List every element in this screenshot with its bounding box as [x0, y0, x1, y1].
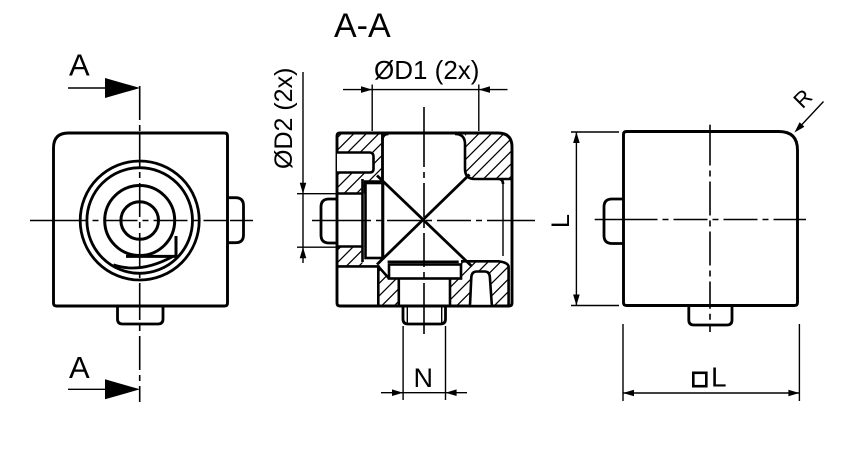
front outline square [54, 133, 228, 306]
arrow left [623, 390, 634, 397]
bottom-right block top edge [461, 261, 509, 306]
leader line [798, 102, 824, 130]
inner circle [121, 202, 159, 240]
horizontal centerline inside [54, 220, 228, 222]
svg-text:A: A [69, 350, 90, 385]
bore corner vertical tangent [175, 236, 178, 256]
svg-text:A: A [69, 48, 90, 83]
svg-text:ØD1 (2x): ØD1 (2x) [374, 55, 479, 85]
bottom tab [118, 306, 164, 324]
svg-text:A-A: A-A [334, 7, 391, 45]
chamfer circle [87, 168, 193, 274]
svg-text:L: L [547, 214, 575, 228]
bottom bore right wall [449, 279, 452, 307]
ext line left [622, 324, 624, 401]
slot notch bottom-right [470, 272, 492, 305]
dim line [575, 132, 577, 306]
horizontal centerline [30, 220, 253, 222]
arrow left [392, 389, 403, 396]
X diagonal 1 [377, 176, 472, 267]
arrow right [479, 86, 490, 93]
tab hole wall right [441, 306, 443, 323]
dim line [343, 89, 508, 91]
bore corner horizontal tangent [126, 255, 177, 258]
pocket chamfer [378, 266, 389, 278]
vertical clamp plate [366, 183, 384, 258]
dim line vertical [302, 72, 304, 263]
arrow bottom [573, 295, 580, 306]
ext line right [798, 324, 800, 401]
centerline overlay vertical [423, 133, 425, 306]
slot notch top-left [337, 153, 374, 173]
vertical centerline inside [139, 133, 141, 306]
ext line left [402, 326, 404, 400]
bottom-left pocket [337, 266, 378, 306]
centerline overlay horizontal [337, 220, 512, 222]
ext line top [571, 131, 619, 133]
dim line [623, 392, 799, 394]
crescent arc [114, 257, 173, 268]
hatch block top-right [465, 133, 512, 179]
top cavity fillet left [383, 134, 389, 140]
arrow line top [68, 87, 112, 89]
arrow top [573, 132, 580, 143]
hatch bottom-right block [450, 261, 509, 306]
leader arrow [795, 122, 805, 132]
bottom tab [403, 306, 446, 324]
hatch bottom-left inner [378, 266, 399, 306]
arrow bottom [300, 247, 307, 258]
X bottom close line [388, 260, 459, 263]
ext line right [478, 85, 480, 132]
arrow line bottom [68, 388, 112, 390]
bore circle [105, 186, 175, 256]
ext line right [445, 326, 447, 400]
arrow right [446, 389, 457, 396]
arrow head top [105, 78, 140, 98]
ext line left [371, 85, 373, 132]
hatch block top-left [337, 133, 383, 194]
centerline overlay horizontal [624, 219, 798, 221]
left tab [321, 199, 337, 243]
ext line bottom [571, 305, 619, 307]
top cavity fillet right [455, 134, 465, 144]
horizontal clamp plate [389, 265, 461, 279]
top-left block outline [365, 133, 383, 194]
section outline square [337, 133, 512, 306]
side outline square [624, 132, 798, 306]
right wall inner line [502, 184, 504, 256]
arrow top [300, 183, 307, 194]
top-right block outline [465, 144, 512, 184]
arrow right [788, 390, 799, 397]
left tab [604, 199, 624, 244]
vertical centerline [423, 107, 425, 334]
vertical centerline [709, 125, 711, 332]
dim line [381, 392, 467, 394]
left bore bottom line [337, 245, 363, 248]
svg-text:L: L [711, 361, 727, 392]
X diagonal 2 [377, 175, 470, 265]
arrow left [361, 86, 372, 93]
vertical centerline [139, 86, 141, 402]
svg-text:N: N [414, 363, 434, 393]
tab hole wall left [406, 306, 408, 323]
right tab [228, 198, 244, 243]
centerline overlay vertical [709, 132, 711, 306]
bottom bore left wall [397, 279, 400, 307]
svg-text:R: R [788, 84, 817, 113]
arrow head bottom [105, 379, 140, 399]
ext line bottom [297, 246, 340, 248]
left bore top line [337, 192, 363, 195]
label square symbol [693, 373, 706, 386]
horizontal centerline [595, 219, 806, 221]
svg-text:ØD2 (2x): ØD2 (2x) [270, 68, 298, 169]
outer circle [80, 161, 199, 280]
left counterbore face [361, 179, 364, 262]
left wall line [381, 133, 384, 258]
bottom tab [689, 306, 732, 326]
hatch band below left bore [337, 247, 363, 267]
ext line top [297, 193, 340, 195]
horizontal centerline [312, 220, 535, 222]
